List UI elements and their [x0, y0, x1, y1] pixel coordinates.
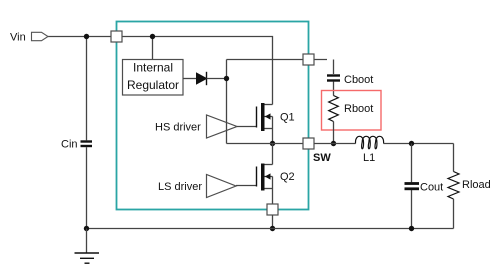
wire: Rload to bottom rail — [453, 199, 455, 229]
node: Rboot/SW junction — [331, 141, 336, 146]
wire: regulator output to diode — [183, 78, 197, 80]
resistor Rboot — [329, 96, 339, 122]
wire: top Vin rail and Q1 drain drop — [48, 37, 273, 105]
resistor Rload — [448, 172, 459, 200]
svg-text:Vin: Vin — [10, 31, 26, 43]
pin square P2 (boot pin) — [303, 54, 314, 65]
wire: left rail (Vin branch down, gap at Cin) — [86, 37, 88, 141]
svg-text:Cin: Cin — [61, 139, 78, 151]
ground — [75, 229, 100, 264]
wire: HS driver output to Q1 gate — [237, 126, 257, 128]
wire: Q1 source to SW rail — [272, 129, 274, 144]
IC boundary box (teal) — [117, 22, 309, 210]
svg-text:Rload: Rload — [462, 179, 491, 191]
pin square P4 (power ground pin) — [267, 204, 278, 215]
svg-text:Cout: Cout — [420, 182, 443, 194]
svg-text:Internal: Internal — [133, 61, 173, 75]
svg-text:SW: SW — [313, 152, 331, 164]
svg-text:Cboot: Cboot — [344, 74, 373, 86]
wire: Rboot to SW rail — [333, 122, 335, 144]
wire: boot rail to boot pin — [227, 59, 328, 61]
transistor Q2 (low-side NMOS) — [257, 164, 273, 191]
Vin input tag — [32, 32, 49, 40]
node: SW junction at Q1 source / Q2 drain — [270, 141, 275, 146]
transistor Q1 (high-side NMOS) — [257, 103, 273, 131]
wire: SW rail — [227, 143, 304, 145]
wire: down to Cout — [411, 144, 413, 183]
buffer HS driver — [207, 115, 238, 138]
svg-text:HS driver: HS driver — [155, 122, 201, 134]
wire: Q2 source down to ground pin — [272, 189, 274, 205]
wire: Q2 drain up to SW junction — [272, 144, 274, 165]
wire: ground pin to bottom rail — [272, 215, 274, 229]
Internal Regulator block U1 — [123, 60, 184, 96]
node: Vin/Cin junction — [84, 34, 89, 39]
capacitor Cout — [405, 182, 420, 185]
node: Q2 source / bottom rail junction — [270, 226, 275, 231]
wire: bottom ground rail — [87, 228, 454, 230]
svg-text:L1: L1 — [363, 152, 375, 164]
node: output junction (Cout) — [409, 141, 414, 146]
pin square P1 (Vin pin on IC edge) — [111, 31, 122, 42]
wire: Cboot to Rboot — [333, 82, 335, 96]
wire: bootstrap vertical down to SW rail (crosses HS driver) — [226, 60, 228, 144]
wire: output node down right side — [453, 144, 455, 172]
wire: L1 to output node — [384, 143, 454, 145]
node: regulator branch junction — [150, 34, 155, 39]
pin square P3 (SW pin) — [303, 138, 314, 149]
svg-text:LS driver: LS driver — [158, 181, 202, 193]
wire: diode cathode to boot node — [207, 78, 227, 80]
wire: drop to Internal Regulator — [152, 37, 154, 61]
capacitor Cin — [81, 140, 93, 142]
capacitor Cboot — [327, 74, 340, 76]
buffer LS driver — [207, 175, 237, 198]
diode D1 — [197, 73, 207, 84]
svg-text:Q1: Q1 — [280, 112, 295, 124]
svg-text:Rboot: Rboot — [344, 103, 373, 115]
inductor L1 — [356, 136, 384, 148]
svg-text:Regulator: Regulator — [127, 78, 179, 92]
wire: LS driver output to Q2 gate — [236, 185, 257, 187]
node: Cin / ground junction — [84, 226, 89, 231]
svg-text:Q2: Q2 — [280, 171, 295, 183]
node: Cout / bottom rail junction — [409, 226, 414, 231]
highlight box (red) around Rboot — [322, 91, 382, 131]
node: boot node junction — [224, 76, 229, 81]
